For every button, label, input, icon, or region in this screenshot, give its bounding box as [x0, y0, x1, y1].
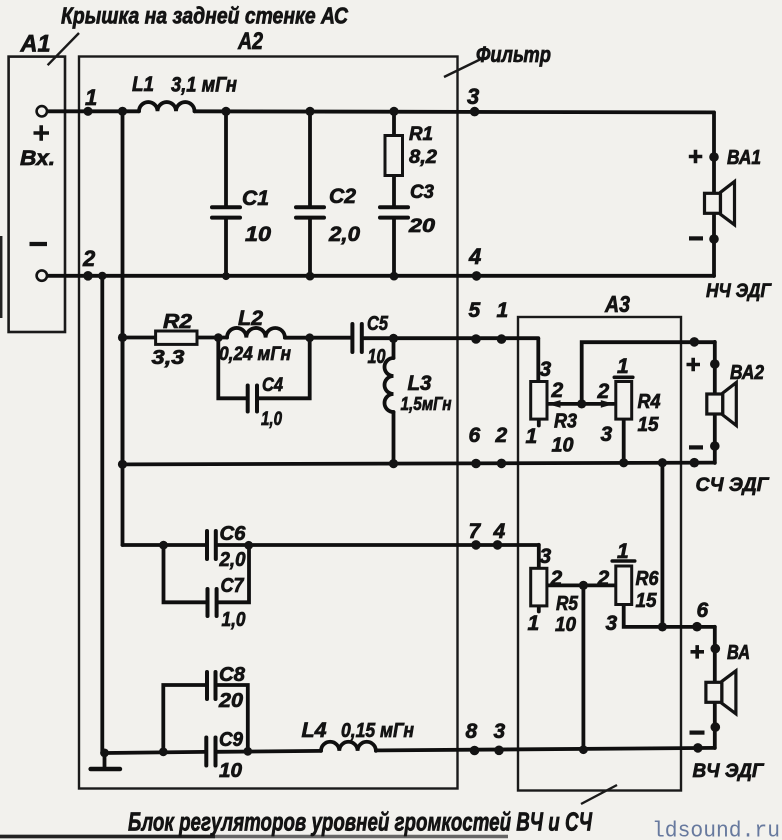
svg-text:3,1 мГн: 3,1 мГн — [171, 74, 237, 97]
svg-text:5: 5 — [469, 299, 481, 322]
svg-text:2,0: 2,0 — [328, 223, 360, 246]
svg-text:10: 10 — [245, 223, 271, 246]
svg-text:6: 6 — [469, 424, 481, 447]
svg-text:ВА: ВА — [727, 642, 750, 664]
svg-text:НЧ ЭДГ: НЧ ЭДГ — [706, 280, 772, 302]
svg-text:С4: С4 — [262, 374, 283, 396]
svg-text:ВА2: ВА2 — [730, 362, 764, 384]
svg-text:Фильтр: Фильтр — [476, 42, 551, 67]
svg-text:R3: R3 — [554, 411, 577, 433]
svg-text:3: 3 — [606, 612, 618, 635]
svg-text:ВА1: ВА1 — [727, 147, 761, 169]
svg-text:2: 2 — [551, 379, 564, 402]
svg-text:3: 3 — [467, 84, 479, 109]
svg-text:1: 1 — [526, 425, 538, 448]
svg-text:8: 8 — [466, 720, 478, 743]
svg-text:R4: R4 — [638, 391, 661, 413]
svg-text:С5: С5 — [367, 313, 389, 335]
svg-text:8,2: 8,2 — [409, 147, 437, 168]
svg-text:3: 3 — [540, 358, 552, 381]
svg-text:20: 20 — [218, 690, 243, 712]
svg-text:1,0: 1,0 — [261, 408, 282, 430]
svg-text:ВЧ ЭДГ: ВЧ ЭДГ — [693, 760, 765, 782]
svg-text:СЧ ЭДГ: СЧ ЭДГ — [696, 474, 770, 496]
svg-text:2: 2 — [550, 567, 563, 590]
svg-text:С3: С3 — [410, 182, 434, 203]
svg-text:0,24 мГн: 0,24 мГн — [219, 344, 291, 365]
svg-text:С1: С1 — [242, 187, 269, 210]
svg-text:1: 1 — [497, 299, 509, 322]
svg-text:7: 7 — [469, 520, 482, 543]
svg-text:1,5мГн: 1,5мГн — [401, 393, 452, 414]
svg-text:2: 2 — [82, 246, 96, 271]
svg-text:1,0: 1,0 — [222, 609, 246, 631]
svg-text:R6: R6 — [636, 568, 660, 590]
svg-text:R1: R1 — [409, 124, 433, 145]
svg-text:10: 10 — [552, 435, 574, 457]
svg-text:1: 1 — [617, 355, 629, 378]
svg-text:ldsound.ru: ldsound.ru — [652, 819, 780, 840]
svg-text:1: 1 — [617, 540, 629, 563]
svg-text:1: 1 — [528, 612, 540, 635]
svg-text:С9: С9 — [219, 729, 244, 751]
svg-text:R5: R5 — [556, 593, 579, 615]
svg-text:Крышка на задней стенке АС: Крышка на задней стенке АС — [61, 3, 348, 29]
svg-text:L1: L1 — [132, 73, 154, 96]
svg-text:20: 20 — [408, 215, 435, 237]
svg-text:L3: L3 — [408, 372, 432, 395]
svg-text:10: 10 — [368, 346, 386, 368]
svg-text:6: 6 — [697, 599, 709, 622]
svg-text:А3: А3 — [604, 291, 630, 317]
svg-text:L2: L2 — [238, 307, 263, 330]
svg-text:0,15 мГн: 0,15 мГн — [341, 720, 414, 742]
svg-text:А1: А1 — [20, 31, 51, 58]
svg-text:2: 2 — [495, 424, 508, 447]
svg-text:3: 3 — [540, 545, 552, 568]
svg-text:4: 4 — [493, 520, 506, 543]
svg-text:А2: А2 — [237, 28, 263, 55]
svg-text:1: 1 — [85, 85, 97, 110]
svg-text:2: 2 — [597, 567, 610, 590]
svg-text:С7: С7 — [221, 575, 245, 597]
svg-text:2,0: 2,0 — [219, 549, 246, 571]
svg-text:10: 10 — [219, 760, 242, 782]
svg-text:С8: С8 — [219, 664, 246, 686]
svg-text:15: 15 — [638, 414, 660, 436]
svg-text:3,3: 3,3 — [152, 347, 185, 369]
svg-text:С2: С2 — [329, 185, 356, 208]
svg-text:L4: L4 — [302, 719, 327, 742]
svg-text:15: 15 — [636, 590, 658, 612]
svg-text:С6: С6 — [220, 523, 247, 545]
svg-text:3: 3 — [601, 423, 613, 446]
svg-text:2: 2 — [597, 380, 610, 403]
svg-text:10: 10 — [555, 614, 576, 636]
svg-text:4: 4 — [468, 244, 481, 269]
svg-text:R2: R2 — [163, 311, 192, 333]
svg-text:3: 3 — [494, 720, 506, 743]
svg-text:Блок регуляторов уровней гром: Блок регуляторов уровней громкостей ВЧ и… — [128, 807, 592, 837]
svg-text:Вх.: Вх. — [20, 147, 55, 170]
